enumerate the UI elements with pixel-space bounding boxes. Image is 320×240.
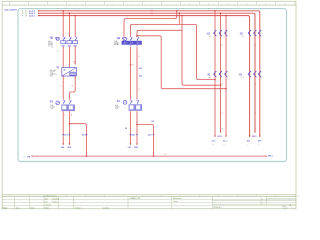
svg-text:6,3 A: 6,3 A bbox=[48, 40, 51, 43]
svg-text:-X1:1: -X1:1 bbox=[212, 141, 216, 143]
svg-text:-X3:1: -X3:1 bbox=[64, 135, 68, 137]
svg-text:1.5: 1.5 bbox=[138, 89, 140, 91]
svg-text:L3-1.1: L3-1.1 bbox=[29, 16, 36, 18]
svg-text:M: M bbox=[72, 85, 74, 87]
svg-text:-F3: -F3 bbox=[49, 102, 53, 104]
svg-text:10 A: 10 A bbox=[50, 104, 53, 107]
svg-text:12: 12 bbox=[227, 3, 229, 5]
svg-text:L25: L25 bbox=[128, 147, 131, 149]
svg-text:M24: M24 bbox=[68, 146, 71, 149]
svg-text:=: = bbox=[262, 199, 263, 201]
svg-text:-X5:2: -X5:2 bbox=[139, 75, 143, 77]
svg-text:Date: Date bbox=[16, 206, 19, 209]
svg-text:=CA1+T1&EFS1: =CA1+T1&EFS1 bbox=[4, 8, 17, 11]
svg-text:-Q1: -Q1 bbox=[49, 37, 54, 40]
svg-text:26.06.2014 14:22:10: 26.06.2014 14:22:10 bbox=[43, 196, 57, 198]
svg-text:1.5: 1.5 bbox=[57, 51, 59, 53]
svg-text:1.5: 1.5 bbox=[138, 56, 140, 58]
svg-text:24VDC: 24VDC bbox=[129, 64, 135, 66]
svg-text:2 4 6: 2 4 6 bbox=[208, 77, 211, 79]
svg-text:-PE.1: -PE.1 bbox=[268, 156, 274, 158]
svg-text:2 4 6: 2 4 6 bbox=[241, 77, 244, 79]
svg-text:-Q2: -Q2 bbox=[116, 37, 121, 40]
svg-text:L1-1.1: L1-1.1 bbox=[29, 11, 36, 13]
svg-text:15: 15 bbox=[284, 3, 286, 5]
svg-text:6/25/2014: 6/25/2014 bbox=[52, 198, 59, 200]
svg-text:L1.: L1. bbox=[23, 156, 26, 158]
svg-text:L2-1.1: L2-1.1 bbox=[29, 13, 36, 15]
svg-text:-W12: -W12 bbox=[217, 136, 223, 138]
svg-text:Bl. 1: Bl. 1 bbox=[284, 206, 287, 208]
svg-text:-PE: -PE bbox=[27, 157, 31, 159]
svg-text:1 3 5: 1 3 5 bbox=[241, 36, 244, 38]
svg-text:L1: L1 bbox=[151, 9, 153, 11]
svg-text:-X2:1: -X2:1 bbox=[246, 141, 250, 143]
svg-text:EPLAN F01: EPLAN F01 bbox=[214, 206, 222, 209]
svg-text:Name: Name bbox=[31, 207, 35, 209]
svg-text:Dep.: Dep. bbox=[45, 201, 49, 203]
svg-text:-X1: -X1 bbox=[206, 34, 210, 36]
svg-text:13: 13 bbox=[246, 3, 248, 5]
svg-text:-X4: -X4 bbox=[125, 127, 128, 130]
svg-text:L25: L25 bbox=[151, 121, 154, 123]
svg-text:-X1:3: -X1:3 bbox=[223, 141, 227, 143]
svg-text:Alimentatori: Alimentatori bbox=[173, 197, 182, 200]
svg-text:1 3 5: 1 3 5 bbox=[208, 36, 211, 38]
svg-text:-X3:2: -X3:2 bbox=[82, 135, 86, 137]
svg-text:1.5: 1.5 bbox=[221, 44, 223, 46]
svg-text:1.5: 1.5 bbox=[221, 83, 223, 85]
svg-text:Checked: Checked bbox=[45, 204, 51, 206]
svg-text:-W13: -W13 bbox=[252, 136, 258, 138]
svg-text:L+: L+ bbox=[61, 85, 63, 87]
svg-text:-X1: -X1 bbox=[207, 75, 211, 77]
svg-text:L24: L24 bbox=[61, 146, 64, 149]
svg-text:/5.4: /5.4 bbox=[247, 144, 249, 146]
svg-text:UMBRA FORNI: UMBRA FORNI bbox=[130, 197, 142, 200]
svg-text:14: 14 bbox=[265, 3, 267, 5]
svg-text:400 V AC: 400 V AC bbox=[50, 69, 56, 72]
svg-text:10: 10 bbox=[189, 3, 191, 5]
svg-text:L2: L2 bbox=[151, 12, 153, 14]
svg-text:/5.2: /5.2 bbox=[223, 144, 225, 146]
svg-text:L3: L3 bbox=[151, 14, 153, 16]
svg-text:/5.2: /5.2 bbox=[212, 144, 214, 146]
svg-text:1.5: 1.5 bbox=[164, 153, 166, 155]
svg-text:-F4: -F4 bbox=[116, 100, 120, 103]
svg-text:-X2: -X2 bbox=[239, 34, 243, 36]
svg-text:10 A: 10 A bbox=[115, 104, 118, 107]
svg-text:/4.1: /4.1 bbox=[128, 150, 130, 152]
svg-text:-X2:3: -X2:3 bbox=[257, 141, 261, 143]
svg-text:1.5: 1.5 bbox=[221, 113, 223, 115]
svg-text:/4.1: /4.1 bbox=[135, 150, 137, 152]
svg-text:Thomas: Thomas bbox=[52, 201, 58, 203]
svg-text:Power: Power bbox=[173, 200, 178, 203]
svg-text:-X4:2: -X4:2 bbox=[148, 134, 152, 137]
svg-text:/3.1: /3.1 bbox=[61, 150, 63, 152]
svg-text:16 A: 16 A bbox=[114, 40, 117, 43]
svg-text:11: 11 bbox=[208, 3, 210, 5]
svg-text:M: M bbox=[71, 115, 73, 117]
svg-text:Modify: Modify bbox=[3, 207, 8, 209]
svg-text:-X2: -X2 bbox=[238, 75, 242, 77]
svg-text:/5.4: /5.4 bbox=[258, 144, 260, 146]
svg-text:Contract: Contract bbox=[75, 206, 81, 209]
svg-text:PE: PE bbox=[73, 61, 75, 63]
svg-text:Customer: Customer bbox=[103, 206, 110, 209]
svg-text:M25: M25 bbox=[134, 147, 137, 149]
svg-text:/3.1: /3.1 bbox=[68, 150, 70, 152]
svg-text:L+: L+ bbox=[64, 115, 66, 117]
svg-text:-T1: -T1 bbox=[56, 68, 60, 70]
svg-text:-X5:1: -X5:1 bbox=[139, 68, 143, 70]
svg-text:Origin: Origin bbox=[45, 206, 49, 209]
svg-text:1.5: 1.5 bbox=[221, 129, 223, 131]
svg-text:-X4:1: -X4:1 bbox=[131, 134, 135, 137]
